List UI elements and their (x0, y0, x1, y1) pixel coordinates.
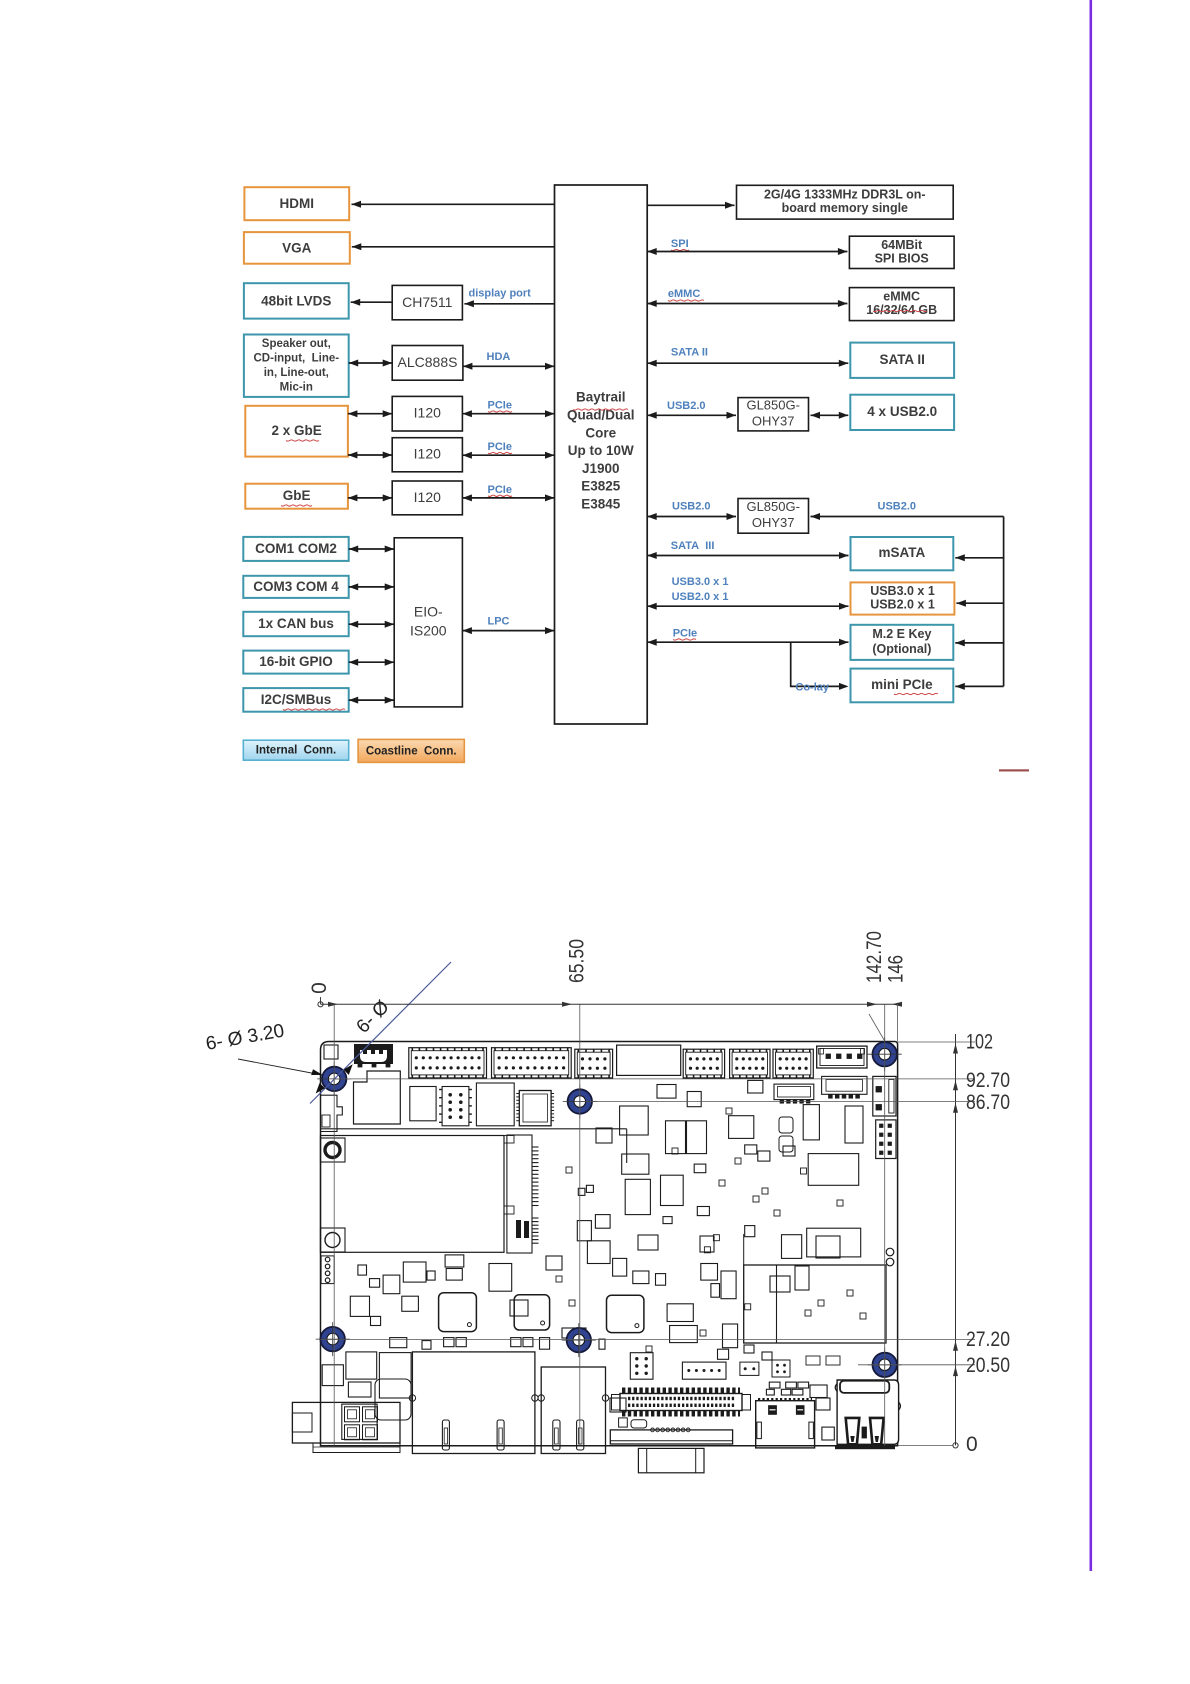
wire PCIe b (462, 452, 554, 459)
connector 2pin bottom (740, 1362, 759, 1375)
connector 2x2 bottom (772, 1360, 790, 1377)
dimension line 92.70 (334, 1078, 975, 1080)
svg-text:SPI: SPI (671, 238, 689, 250)
label PCIe b (488, 441, 513, 454)
svg-text:27.20: 27.20 (966, 1328, 1010, 1351)
svg-text:HDA: HDA (487, 351, 511, 363)
wire SATA III (647, 552, 848, 559)
block GL850G b (738, 499, 809, 534)
connector vertical header CN10 (439, 1087, 472, 1126)
label dim 65.50 (566, 939, 589, 983)
components small bottom (806, 1356, 840, 1365)
label dim 146 (885, 955, 908, 983)
label USB3.0 x1 (672, 576, 729, 588)
component shield box U_a (354, 1071, 401, 1124)
connector wafer bottom (682, 1362, 726, 1379)
connector USB stack (835, 1380, 900, 1449)
svg-text:I120: I120 (414, 489, 441, 505)
dimension right line (953, 1034, 958, 1448)
svg-text:USB3.0 x 1: USB3.0 x 1 (672, 576, 729, 588)
block 48bit LVDS (244, 283, 349, 318)
block VGA (244, 232, 350, 264)
annotation diameter leader TL hole (310, 962, 451, 1104)
wire GbE to I120c (348, 494, 392, 501)
dimension top line (318, 997, 902, 1007)
connector edge CN13 (873, 1076, 896, 1116)
svg-text:mSATA: mSATA (879, 545, 926, 560)
label 6-dia rotated (353, 996, 394, 1037)
svg-text:EIO-: EIO- (414, 604, 443, 620)
svg-text:Internal Conn.: Internal Conn. (256, 745, 337, 757)
connector wafer CN11 (774, 1084, 814, 1103)
label HDA (487, 351, 511, 363)
label USB2.0 a (667, 400, 706, 412)
components above HDMI (766, 1382, 834, 1440)
dimension line 20.50 (858, 1364, 975, 1366)
svg-text:GL850G-: GL850G- (746, 499, 799, 514)
component memory region (744, 1234, 886, 1343)
wire bus to mSATA (955, 554, 1003, 561)
svg-text:SATA II: SATA II (879, 352, 925, 367)
label SATA II (671, 346, 708, 358)
mounting hole TM (563, 1085, 597, 1119)
svg-text:1x CAN bus: 1x CAN bus (258, 616, 334, 631)
svg-text:SATA II: SATA II (671, 346, 708, 358)
label SPI (671, 238, 689, 251)
svg-text:86.70: 86.70 (966, 1091, 1010, 1114)
svg-text:LPC: LPC (488, 616, 510, 628)
mounting hole TL (317, 1062, 351, 1096)
svg-text:USB2.0 x 1: USB2.0 x 1 (870, 597, 935, 611)
svg-text:Mic-in: Mic-in (280, 381, 313, 393)
dimension line 0 bottom (898, 1444, 953, 1446)
block SoC Baytrail (555, 185, 648, 724)
block 4x USB2.0 (850, 395, 954, 430)
wire colay branch (791, 642, 849, 690)
wire LVDS to CH7511 (351, 299, 393, 306)
label dim 86.70 (966, 1091, 1010, 1114)
connector CN12 (822, 1076, 867, 1098)
wire VGA to SoC (352, 243, 555, 250)
block CH7511 (392, 285, 462, 319)
svg-text:16-bit GPIO: 16-bit GPIO (259, 654, 333, 669)
block 2xGbE (245, 406, 348, 457)
svg-text:Coastline Conn.: Coastline Conn. (366, 745, 457, 757)
connector HDMI (756, 1399, 815, 1448)
connector wafer CN9 (817, 1046, 867, 1068)
wire bus to miniPCIe (955, 683, 1003, 690)
wire PCIe c (462, 494, 554, 501)
svg-text:J1900: J1900 (582, 461, 620, 476)
wire USB3 USB2 (647, 603, 848, 610)
svg-text:OHY37: OHY37 (752, 414, 795, 429)
svg-text:2G/4G 1333MHz DDR3L on-: 2G/4G 1333MHz DDR3L on- (764, 188, 926, 202)
block SPI BIOS (849, 236, 954, 268)
connector header CN7 (730, 1049, 770, 1078)
svg-text:HDMI: HDMI (280, 196, 315, 211)
wire GL850G a to USB (811, 412, 849, 419)
wire PCIe a (462, 410, 554, 417)
dimension ext 146 (897, 1004, 899, 1041)
wire display port (464, 300, 554, 307)
wire right bus vertical (1003, 517, 1005, 687)
wire GPIO to EIO (349, 659, 395, 666)
svg-text:COM1 COM2: COM1 COM2 (255, 541, 337, 556)
svg-text:6- Ø: 6- Ø (353, 996, 394, 1037)
block CAN bus (243, 612, 348, 636)
svg-text:OHY37: OHY37 (752, 515, 795, 530)
block mSATA (851, 537, 954, 570)
connector header CN3 (492, 1048, 572, 1078)
svg-text:(Optional): (Optional) (872, 642, 931, 656)
dimension line 86.70 (580, 1101, 975, 1103)
component U_b (410, 1087, 436, 1121)
svg-text:142.70: 142.70 (863, 931, 886, 983)
dimension line 27.20 (321, 1339, 976, 1341)
label LPC (488, 616, 510, 628)
connector wafer CN1 (354, 1044, 393, 1067)
wire COM34 to EIO (349, 583, 395, 590)
connector RJ45 dual LAN1 (409, 1352, 538, 1454)
mounting hole BM (562, 1323, 596, 1357)
svg-text:E3825: E3825 (581, 479, 621, 494)
svg-text:USB3.0 x 1: USB3.0 x 1 (870, 584, 935, 598)
svg-text:102: 102 (966, 1031, 993, 1054)
svg-text:Core: Core (585, 425, 616, 440)
label dim 20.50 (966, 1354, 1010, 1377)
wire SATA II (647, 360, 848, 367)
wire GbE2 to I120a (348, 410, 392, 417)
svg-text:GL850G-: GL850G- (746, 398, 799, 413)
svg-text:M.2 E Key: M.2 E Key (872, 627, 931, 641)
block I120 c (392, 481, 462, 515)
wire SPI (647, 248, 847, 255)
svg-text:0: 0 (966, 1433, 978, 1456)
block Speaker audio (244, 335, 349, 397)
block eMMC (849, 288, 954, 321)
wire GbE2 to I120b (348, 452, 392, 459)
svg-text:IS200: IS200 (410, 623, 447, 639)
svg-text:USB2.0: USB2.0 (878, 501, 917, 513)
label Co-lay (795, 682, 830, 694)
svg-text:VGA: VGA (282, 240, 312, 255)
svg-text:PCIe: PCIe (673, 628, 697, 640)
label USB2.0 b (672, 501, 711, 513)
svg-text:I120: I120 (414, 446, 441, 462)
block HDMI (244, 187, 349, 220)
label dim 142.70 (863, 931, 886, 983)
svg-text:in, Line-out,: in, Line-out, (264, 367, 329, 379)
block ALC888S (392, 346, 463, 381)
label PCIe a (488, 400, 513, 413)
svg-text:USB2.0: USB2.0 (667, 400, 706, 412)
svg-text:16/32/64 GB: 16/32/64 GB (866, 303, 937, 317)
svg-text:USB2.0: USB2.0 (672, 501, 711, 513)
svg-text:48bit LVDS: 48bit LVDS (261, 293, 331, 308)
components bottom row (322, 1338, 830, 1420)
label PCIe c (488, 484, 513, 497)
mounting hole TR (868, 1037, 902, 1071)
connector RJ45 LAN2 (538, 1367, 609, 1454)
block DDR3L memory (737, 185, 954, 219)
svg-text:Co-lay: Co-lay (795, 682, 830, 694)
connector side jack (321, 1095, 343, 1131)
wire CAN to EIO (349, 621, 395, 628)
dimension ext 0-left (333, 1004, 335, 1446)
legend Internal Conn (243, 740, 348, 760)
socket mPCIe (321, 1129, 627, 1253)
wire audio to ALC888S (349, 360, 393, 367)
label dim 27.20 (966, 1328, 1010, 1351)
svg-text:SPI BIOS: SPI BIOS (875, 251, 929, 265)
svg-text:COM3 COM 4: COM3 COM 4 (253, 579, 339, 594)
connector header CN2 (409, 1048, 487, 1078)
components QFP chips row (439, 1293, 644, 1333)
legend Coastline Conn (358, 739, 464, 762)
connector header 2x3 (630, 1353, 653, 1380)
connector blank CN5 (617, 1045, 681, 1075)
svg-text:CH7511: CH7511 (402, 294, 453, 310)
dimension ext 65.50 (579, 1004, 581, 1446)
wire eMMC (647, 300, 847, 307)
wire LPC (462, 627, 554, 634)
label display port (469, 288, 532, 300)
wire COM12 to EIO (349, 546, 395, 553)
connector LVDS dock (612, 1390, 751, 1414)
connector power PWR1 (292, 1402, 400, 1452)
svg-text:board memory single: board memory single (782, 201, 908, 215)
svg-text:ALC888S: ALC888S (398, 354, 458, 370)
component U_c (476, 1083, 514, 1126)
svg-text:92.70: 92.70 (966, 1069, 1010, 1092)
svg-text:2 x GbE: 2 x GbE (271, 423, 321, 438)
svg-text:4 x USB2.0: 4 x USB2.0 (867, 404, 937, 419)
wire HDA (463, 363, 555, 370)
block GPIO (243, 651, 348, 674)
svg-text:PCIe: PCIe (488, 484, 512, 496)
svg-text:64MBit: 64MBit (881, 238, 923, 252)
wire USB2.0 b (647, 513, 736, 520)
svg-text:USB2.0 x 1: USB2.0 x 1 (672, 591, 729, 603)
label USB2.0 c (878, 501, 917, 513)
svg-text:eMMC: eMMC (883, 289, 920, 303)
block I120 b (392, 438, 462, 472)
svg-text:display port: display port (469, 288, 532, 300)
wire I2C to EIO (349, 697, 395, 704)
connector small square J_tl (324, 1045, 338, 1059)
connector header CN8 (773, 1049, 813, 1078)
svg-text:PCIe: PCIe (488, 400, 512, 412)
block EIO-IS200 (394, 538, 462, 707)
components mid board (350, 1105, 866, 1360)
svg-text:146: 146 (885, 955, 908, 983)
connector header CN4 (575, 1049, 613, 1078)
label PCIe d (673, 628, 697, 641)
block mini PCIe (851, 669, 954, 703)
svg-text:eMMC: eMMC (668, 288, 700, 300)
svg-text:0: 0 (308, 982, 331, 994)
svg-text:CD-input, Line-: CD-input, Line- (254, 352, 340, 364)
label SATA III (671, 540, 715, 552)
block COM1 COM2 (243, 537, 348, 561)
wire bus to M2 (955, 639, 1003, 646)
svg-text:GbE: GbE (283, 488, 311, 503)
mounting hole BR (868, 1348, 902, 1382)
label dim 102 (966, 1031, 993, 1054)
svg-text:I120: I120 (414, 405, 441, 421)
svg-text:E3845: E3845 (581, 496, 621, 511)
block SATA II (850, 343, 954, 378)
svg-text:20.50: 20.50 (966, 1354, 1010, 1377)
wire HDMI to SoC (352, 201, 555, 208)
components rounded pair right (779, 1117, 894, 1266)
page purple rule (1090, 0, 1093, 1571)
wire PCIe M2 (647, 639, 848, 646)
block M.2 E Key (851, 625, 954, 660)
svg-text:PCIe: PCIe (488, 441, 512, 453)
label eMMC (668, 288, 704, 301)
connector VGA DB15 (610, 1428, 732, 1473)
svg-text:65.50: 65.50 (566, 939, 589, 983)
mounting hole BL (316, 1322, 350, 1356)
dimension line 102 (898, 1041, 975, 1043)
wire USB2.0 a (647, 412, 736, 419)
block GL850G a (738, 398, 809, 431)
wire USB2.0 c (811, 513, 1004, 520)
dimension ext 142.70 (869, 1004, 885, 1446)
wire SoC to DDR3L (647, 202, 734, 209)
components near VGA (619, 1418, 647, 1428)
label dim 92.70 (966, 1069, 1010, 1092)
svg-text:I2C/SMBus: I2C/SMBus (261, 692, 332, 707)
connector header CN6 (683, 1049, 724, 1078)
svg-text:Up to 10W: Up to 10W (568, 443, 634, 458)
label 6-dia 3.20 (204, 1020, 322, 1075)
connector pin strip left (321, 1256, 334, 1284)
svg-text:SATA III: SATA III (671, 540, 715, 552)
wire bus to USB3box (956, 600, 1003, 607)
block I2C SMBus (243, 688, 348, 712)
svg-text:Baytrail: Baytrail (576, 390, 626, 405)
block COM3 COM4 (243, 576, 348, 598)
page red mark (999, 769, 1029, 771)
board outline (321, 1042, 898, 1446)
block GbE (245, 484, 348, 509)
svg-text:mini PCIe: mini PCIe (871, 677, 933, 692)
label dim 0 top (308, 982, 331, 994)
block USB3 USB2 (851, 582, 955, 614)
label dim 0 right (966, 1433, 978, 1456)
components small row2 (657, 1080, 763, 1106)
label USB2.0 x1 (672, 591, 729, 603)
svg-text:6- Ø 3.20: 6- Ø 3.20 (204, 1020, 286, 1054)
connector edge CN14 (876, 1120, 896, 1159)
block I120 a (392, 396, 462, 431)
svg-text:Speaker out,: Speaker out, (262, 338, 331, 350)
component QFP U_d (516, 1091, 554, 1126)
